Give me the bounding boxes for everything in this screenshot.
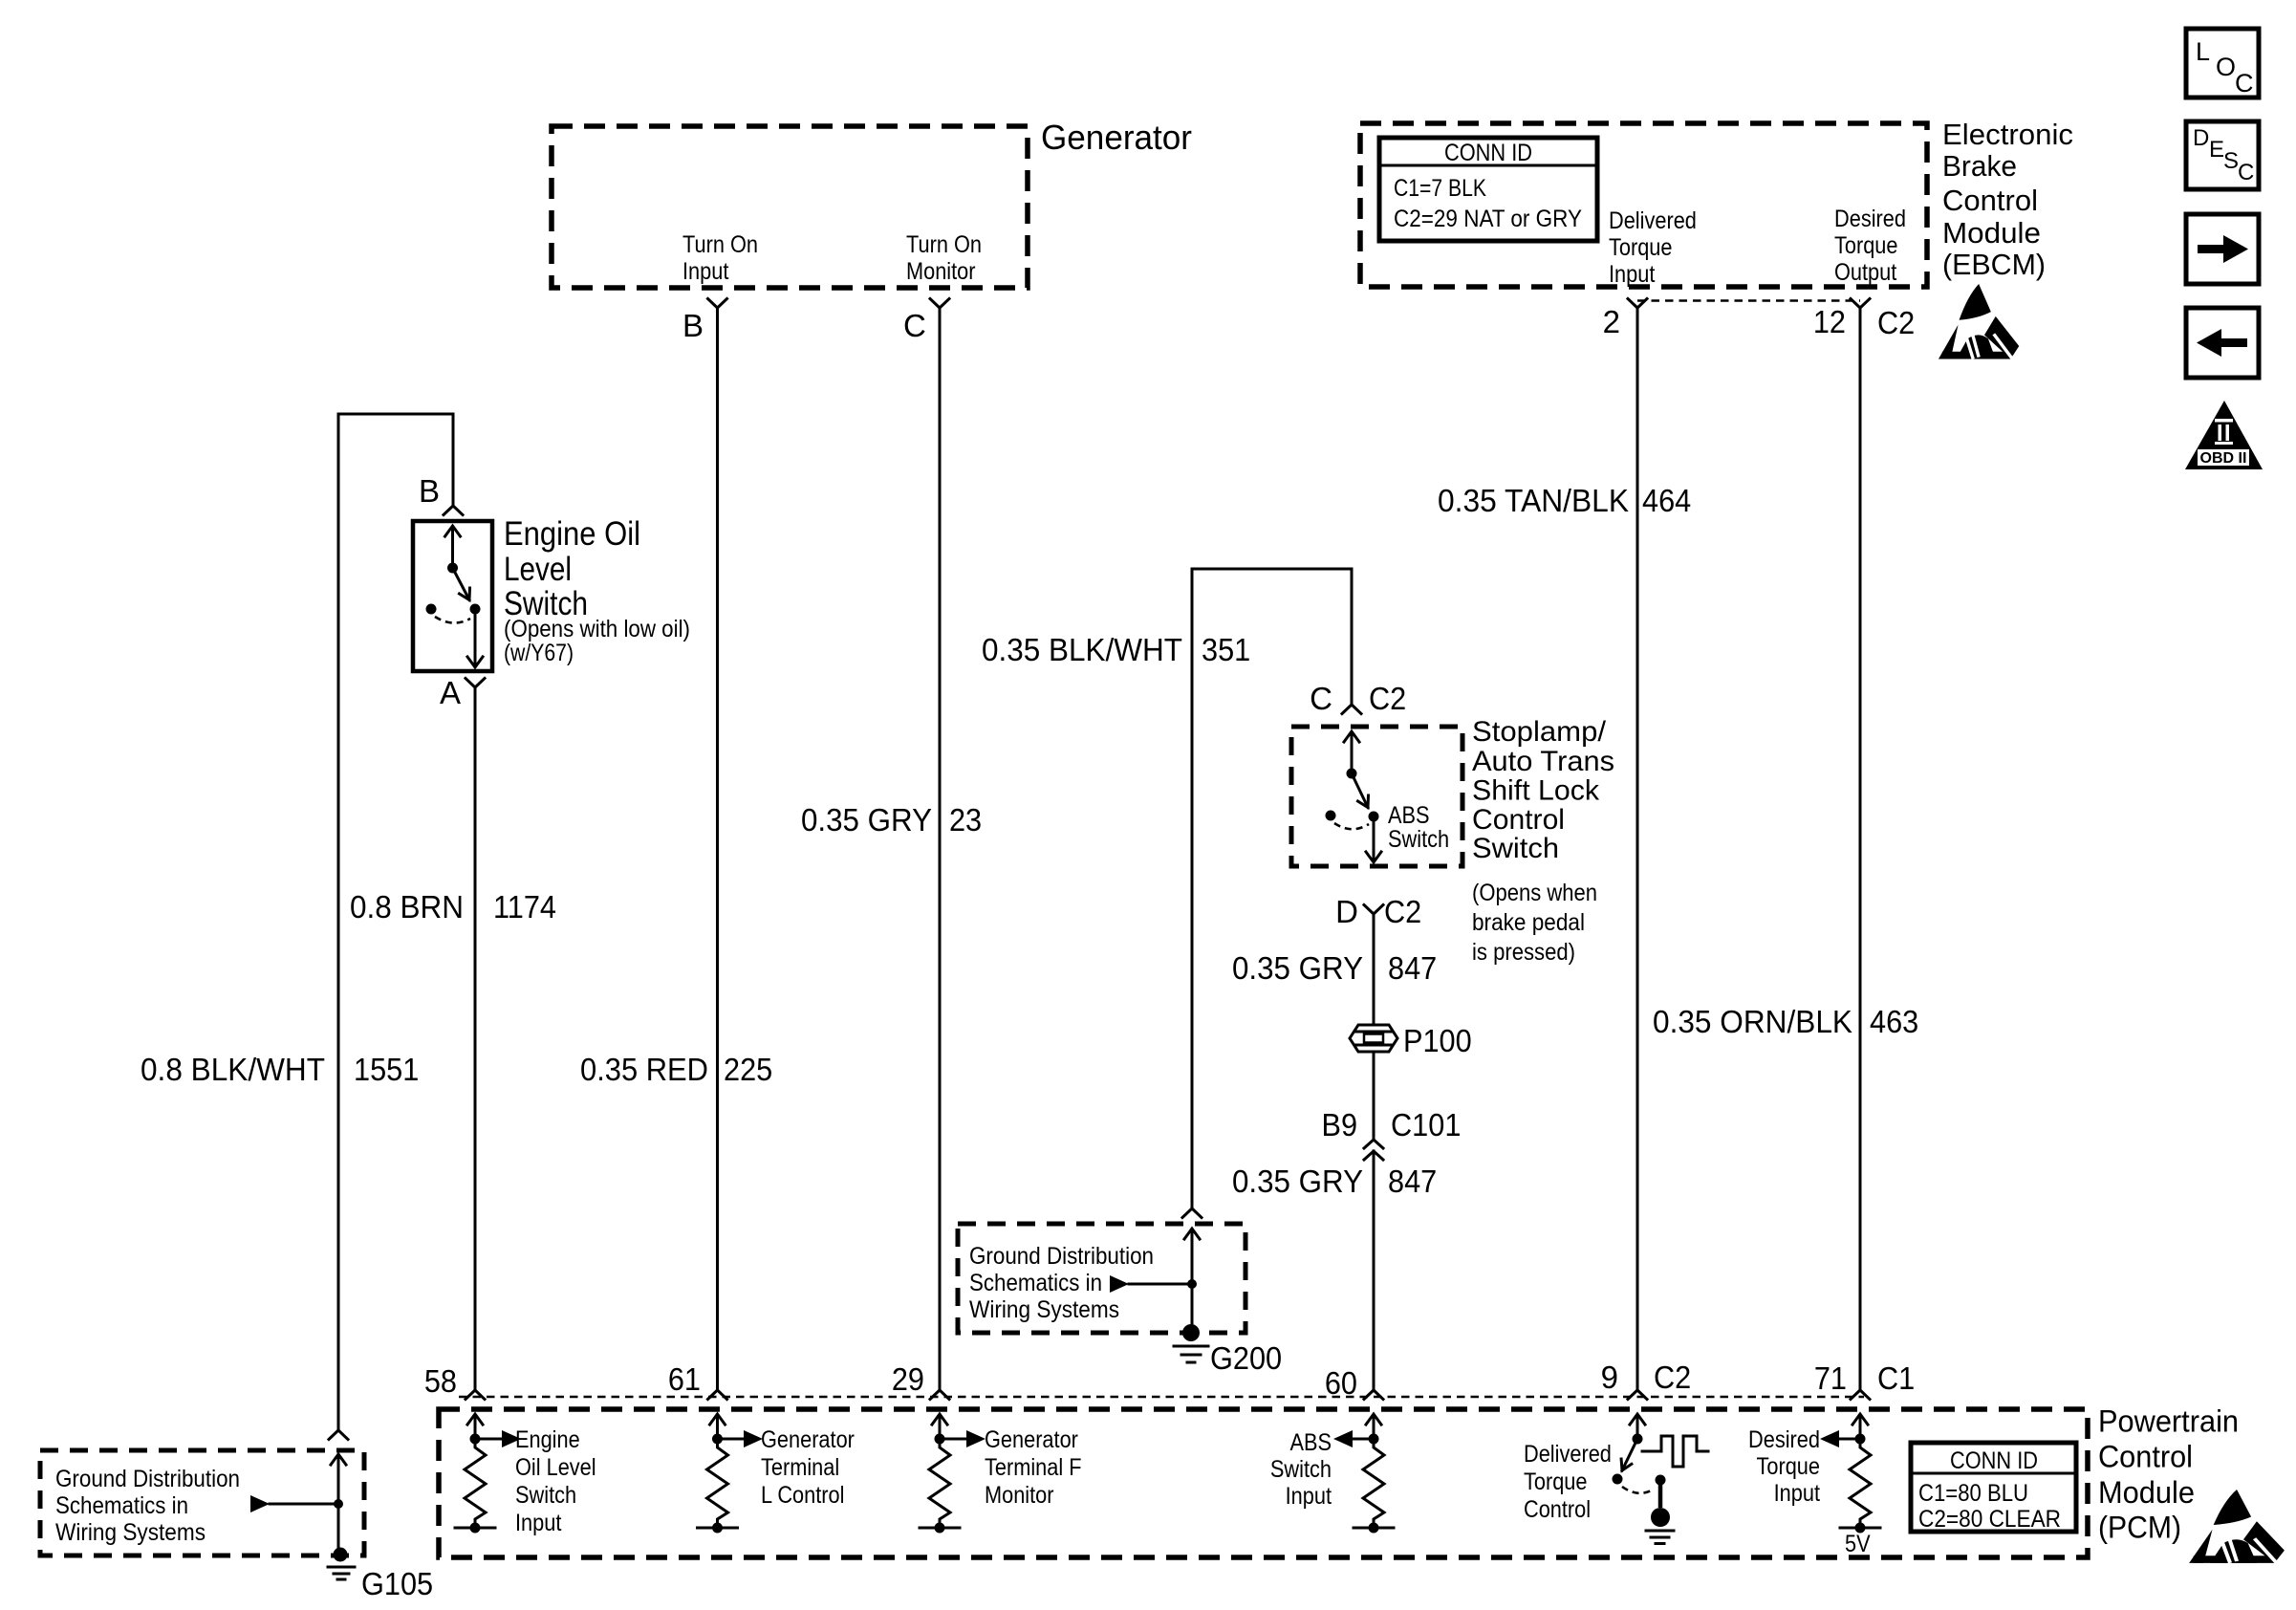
connector chevron PCM pin 60 [1364,1390,1383,1400]
PCM pin 58 input arrow and resistor [474,1415,477,1439]
svg-text:0.35 RED: 0.35 RED [580,1052,708,1087]
svg-text:Schematics in: Schematics in [969,1270,1102,1296]
wire 0.35 GRY 847 run (C101 to PCM 60) [1373,1151,1375,1390]
svg-text:Monitor: Monitor [985,1482,1054,1509]
svg-text:Module: Module [2098,1475,2195,1510]
svg-text:Brake: Brake [1942,149,2017,183]
svg-text:464: 464 [1642,483,1691,518]
svg-text:Engine Oil: Engine Oil [504,515,640,553]
wire 0.35 GRY 847 run (P100 to C101) [1373,1052,1375,1138]
svg-text:Control: Control [1942,184,2038,217]
svg-text:0.8 BLK/WHT: 0.8 BLK/WHT [141,1052,325,1087]
svg-text:Torque: Torque [1757,1453,1821,1480]
oil switch left throw dot [426,604,437,615]
svg-text:Input: Input [515,1510,561,1536]
svg-text:O: O [2216,53,2236,81]
PCM pin 61 input arrow and resistor [716,1415,719,1439]
EBCM dashed box [1360,123,1927,287]
ESD symbol (PCM) [2189,1490,2285,1563]
oil switch fixed contact arrow (up) [451,528,454,568]
svg-text:Module: Module [1942,216,2041,250]
svg-text:Torque: Torque [1524,1469,1588,1495]
oil switch blade (diagonal with arrowhead) [453,568,470,600]
svg-text:71: 71 [1814,1360,1847,1396]
connector chevron PCM pin 9 [1628,1390,1647,1400]
wire engine oil switch pin B drop [452,414,455,506]
svg-text:A: A [440,675,461,710]
connector chevron pin B (oil switch) [444,506,463,515]
pass-through grommet P100 [1350,1025,1397,1052]
PCM CONN ID table [1911,1443,2076,1532]
PCM connector thin dashed line [459,1396,1864,1398]
svg-text:463: 463 [1870,1004,1918,1039]
connector chevron generator pin C [930,299,949,309]
G200 ground dot [1182,1324,1200,1341]
svg-text:Switch: Switch [1472,833,1559,864]
oil switch lower contact arrow (down) [474,609,477,665]
G200 junction dot [1187,1279,1197,1289]
connector chevron PCM pin 71 [1851,1390,1870,1400]
svg-text:61: 61 [668,1361,701,1397]
svg-text:0.8 BRN: 0.8 BRN [350,889,464,925]
svg-text:0.35 GRY: 0.35 GRY [801,802,932,838]
svg-text:1174: 1174 [493,889,556,925]
oil switch pivot dot [447,563,458,574]
svg-text:D: D [2193,125,2209,151]
stoplamp switch fixed contact arrow [1351,733,1354,773]
svg-text:L Control: L Control [761,1482,844,1509]
svg-text:B: B [682,308,704,343]
svg-text:(PCM): (PCM) [2098,1511,2181,1545]
svg-text:C2: C2 [1384,894,1421,929]
svg-text:C2=80 CLEAR: C2=80 CLEAR [1918,1506,2061,1533]
svg-text:Output: Output [1834,259,1896,286]
connector chevron generator pin B [708,299,727,309]
svg-text:(w/Y67): (w/Y67) [504,640,574,666]
wire 0.35 BLK/WHT 351 vertical run [1191,569,1194,1208]
svg-text:Ground Distribution: Ground Distribution [55,1466,240,1492]
svg-text:Generator: Generator [761,1426,855,1453]
svg-text:2: 2 [1603,304,1620,339]
svg-text:847: 847 [1388,1164,1437,1199]
svg-text:Desired: Desired [1748,1426,1820,1453]
svg-text:Desired: Desired [1834,206,1906,232]
svg-text:C2: C2 [1877,305,1915,340]
svg-text:Generator: Generator [985,1426,1078,1453]
svg-text:C: C [2235,69,2254,98]
wire top horizontal segment to oil switch pin B [338,413,453,416]
svg-text:Shift Lock: Shift Lock [1472,775,1600,807]
generator dashed box [552,126,1028,288]
svg-text:Input: Input [682,258,728,285]
svg-text:Stoplamp/: Stoplamp/ [1472,716,1607,748]
svg-text:58: 58 [424,1363,457,1399]
svg-text:C: C [2238,160,2254,185]
stoplamp switch dashed box [1291,727,1462,866]
svg-text:ABS: ABS [1388,802,1430,829]
G200 reference arrow [1129,1283,1192,1286]
svg-text:Switch: Switch [1388,826,1449,853]
svg-text:Switch: Switch [515,1482,576,1509]
wire 0.35 TAN/BLK 464 run (EBCM 2 to PCM 9) [1636,308,1639,1390]
svg-text:C101: C101 [1391,1107,1461,1142]
svg-text:C1=80 BLU: C1=80 BLU [1918,1480,2028,1507]
connector chevron PCM pin 58 [466,1390,485,1400]
svg-text:Input: Input [1609,261,1655,288]
svg-text:Input: Input [1286,1483,1332,1510]
svg-text:C2: C2 [1369,681,1406,716]
svg-text:Switch: Switch [1270,1456,1332,1483]
svg-text:CONN ID: CONN ID [1444,140,1532,166]
svg-text:(Opens with low oil): (Opens with low oil) [504,616,690,642]
G200 internal wire with up arrow [1191,1229,1194,1333]
powertrain control module dashed box [439,1409,2088,1557]
wire stoplamp pin C drop [1351,569,1354,705]
connector chevron PCM pin 29 [930,1390,949,1400]
icon forward arrow box [2186,214,2259,284]
svg-text:ABS: ABS [1290,1429,1332,1456]
in-line connector C101 double chevron [1364,1140,1383,1160]
svg-text:Delivered: Delivered [1609,207,1697,234]
svg-text:Schematics in: Schematics in [55,1492,188,1519]
svg-text:L: L [2196,37,2210,66]
svg-text:225: 225 [724,1052,772,1087]
svg-text:Level: Level [504,551,572,588]
svg-text:S: S [2223,148,2239,174]
connector chevron EBCM pin 12 [1851,299,1870,309]
stoplamp switch left throw dot [1326,811,1336,821]
svg-text:0.35 TAN/BLK: 0.35 TAN/BLK [1438,483,1629,518]
svg-text:CONN ID: CONN ID [1950,1447,2038,1474]
connector chevron above G200 box [1182,1208,1202,1218]
svg-text:Oil Level: Oil Level [515,1454,596,1481]
svg-text:0.35 BLK/WHT: 0.35 BLK/WHT [982,632,1182,667]
G200 ground symbol [1174,1346,1208,1362]
svg-text:is pressed): is pressed) [1472,939,1575,966]
svg-text:Turn On: Turn On [906,231,982,258]
svg-text:Torque: Torque [1609,234,1673,261]
svg-text:351: 351 [1202,632,1250,667]
svg-text:brake pedal: brake pedal [1472,909,1585,936]
stoplamp switch lower contact arrow [1373,816,1375,860]
G105 ground symbol [328,1567,355,1579]
oil switch moving contact dot [470,604,481,615]
svg-text:(Opens when: (Opens when [1472,880,1597,906]
svg-text:0.35 GRY: 0.35 GRY [1232,1164,1363,1199]
stoplamp switch travel dashed arc [1334,823,1369,829]
svg-text:B9: B9 [1322,1107,1358,1142]
connector chevron above G105 box [329,1430,348,1440]
connector chevron PCM pin 61 [708,1390,727,1400]
svg-text:29: 29 [892,1361,924,1397]
icon LOC box [2186,29,2259,98]
svg-text:Turn On: Turn On [682,231,758,258]
svg-text:G200: G200 [1210,1340,1282,1376]
wire 0.35 ORN/BLK 463 run (EBCM 12 to PCM 71) [1859,308,1862,1390]
G105 internal wire with up arrow [337,1456,340,1555]
svg-text:0.35 ORN/BLK: 0.35 ORN/BLK [1653,1004,1852,1039]
svg-text:Terminal F: Terminal F [985,1454,1082,1481]
svg-text:60: 60 [1325,1365,1357,1401]
svg-text:(EBCM): (EBCM) [1942,248,2046,281]
svg-text:C: C [1310,681,1332,716]
connector chevron EBCM pin 2 [1628,299,1647,309]
svg-text:Auto Trans: Auto Trans [1472,746,1614,777]
svg-text:Control: Control [1472,804,1565,836]
EBCM connector thin dashed line [1637,299,1860,301]
icon back arrow box [2186,308,2259,378]
engine oil level switch box [413,521,492,671]
svg-text:Powertrain: Powertrain [2098,1404,2239,1439]
wire 0.35 RED 225 run (generator B to PCM 61) [716,308,719,1390]
svg-text:Torque: Torque [1834,232,1898,259]
svg-text:847: 847 [1388,950,1437,986]
svg-text:C1: C1 [1877,1360,1915,1396]
oil switch travel dashed arc [435,617,470,623]
svg-text:C: C [903,308,926,343]
svg-text:Control: Control [1524,1496,1591,1523]
wire horizontal segment to stoplamp switch [1192,568,1352,571]
svg-text:1551: 1551 [354,1052,419,1087]
connector chevron pin A (oil switch) [466,679,485,688]
connector chevron stoplamp pin C [1342,705,1361,714]
G105 reference arrow [270,1503,338,1506]
PCM pin 60 input arrow and resistor [1373,1415,1375,1439]
svg-text:Wiring Systems: Wiring Systems [55,1519,206,1546]
svg-text:Terminal: Terminal [761,1454,839,1481]
ground distribution dashed box (G105) [40,1450,364,1556]
icon DESC box [2186,121,2259,189]
connector chevron stoplamp pin D [1364,905,1383,915]
svg-text:Control: Control [2098,1440,2193,1474]
wire 0.8 BRN 1174 run (pin A to PCM 58) [474,687,477,1390]
svg-text:B: B [419,473,440,509]
svg-text:Generator: Generator [1041,118,1192,157]
svg-text:Delivered: Delivered [1524,1441,1612,1468]
EBCM CONN ID table [1379,138,1597,241]
svg-text:C2: C2 [1654,1360,1691,1395]
svg-text:OBD II: OBD II [2200,450,2247,467]
svg-text:C1=7 BLK: C1=7 BLK [1394,175,1486,202]
svg-text:Input: Input [1774,1480,1820,1507]
PWM waveform symbol [1642,1436,1708,1467]
svg-text:9: 9 [1601,1360,1618,1395]
svg-text:23: 23 [949,802,982,838]
svg-text:Ground Distribution: Ground Distribution [969,1243,1154,1270]
wire 0.35 GRY 847 run (stoplamp D to P100) [1373,914,1375,1025]
wire 0.8 BLK/WHT 1551 vertical run [337,414,340,1430]
PCM pin 9 delivered torque control switch [1636,1415,1639,1439]
PCM pin 71 input arrow and resistor (5V) [1859,1415,1862,1439]
svg-text:5V: 5V [1845,1531,1871,1557]
svg-text:C2=29 NAT or GRY: C2=29 NAT or GRY [1394,206,1582,232]
svg-text:G105: G105 [361,1566,433,1601]
stoplamp switch blade [1352,773,1368,808]
svg-text:Monitor: Monitor [906,258,976,285]
ground distribution dashed box (G200) [958,1224,1245,1333]
wire 0.35 GRY 23 run (generator C to PCM 29) [939,308,942,1390]
G105 junction dot [334,1499,343,1509]
svg-text:Engine: Engine [515,1426,580,1453]
switch throw plunger and ground [1656,1475,1666,1486]
stoplamp switch pivot dot [1347,769,1357,779]
G105 ground dot [334,1548,348,1562]
svg-text:12: 12 [1813,304,1846,339]
svg-text:Wiring Systems: Wiring Systems [969,1296,1119,1323]
stoplamp switch moving contact dot [1369,812,1379,822]
PCM pin 29 input arrow and resistor [939,1415,942,1439]
ESD symbol (EBCM) [1939,284,2019,359]
svg-text:P100: P100 [1403,1023,1472,1058]
switch travel dashed arc [1622,1487,1653,1493]
icon OBD II triangle [2185,401,2263,469]
svg-text:Electronic: Electronic [1942,118,2073,151]
svg-text:D: D [1335,894,1358,929]
svg-text:0.35 GRY: 0.35 GRY [1232,950,1363,986]
svg-text:E: E [2209,137,2224,163]
